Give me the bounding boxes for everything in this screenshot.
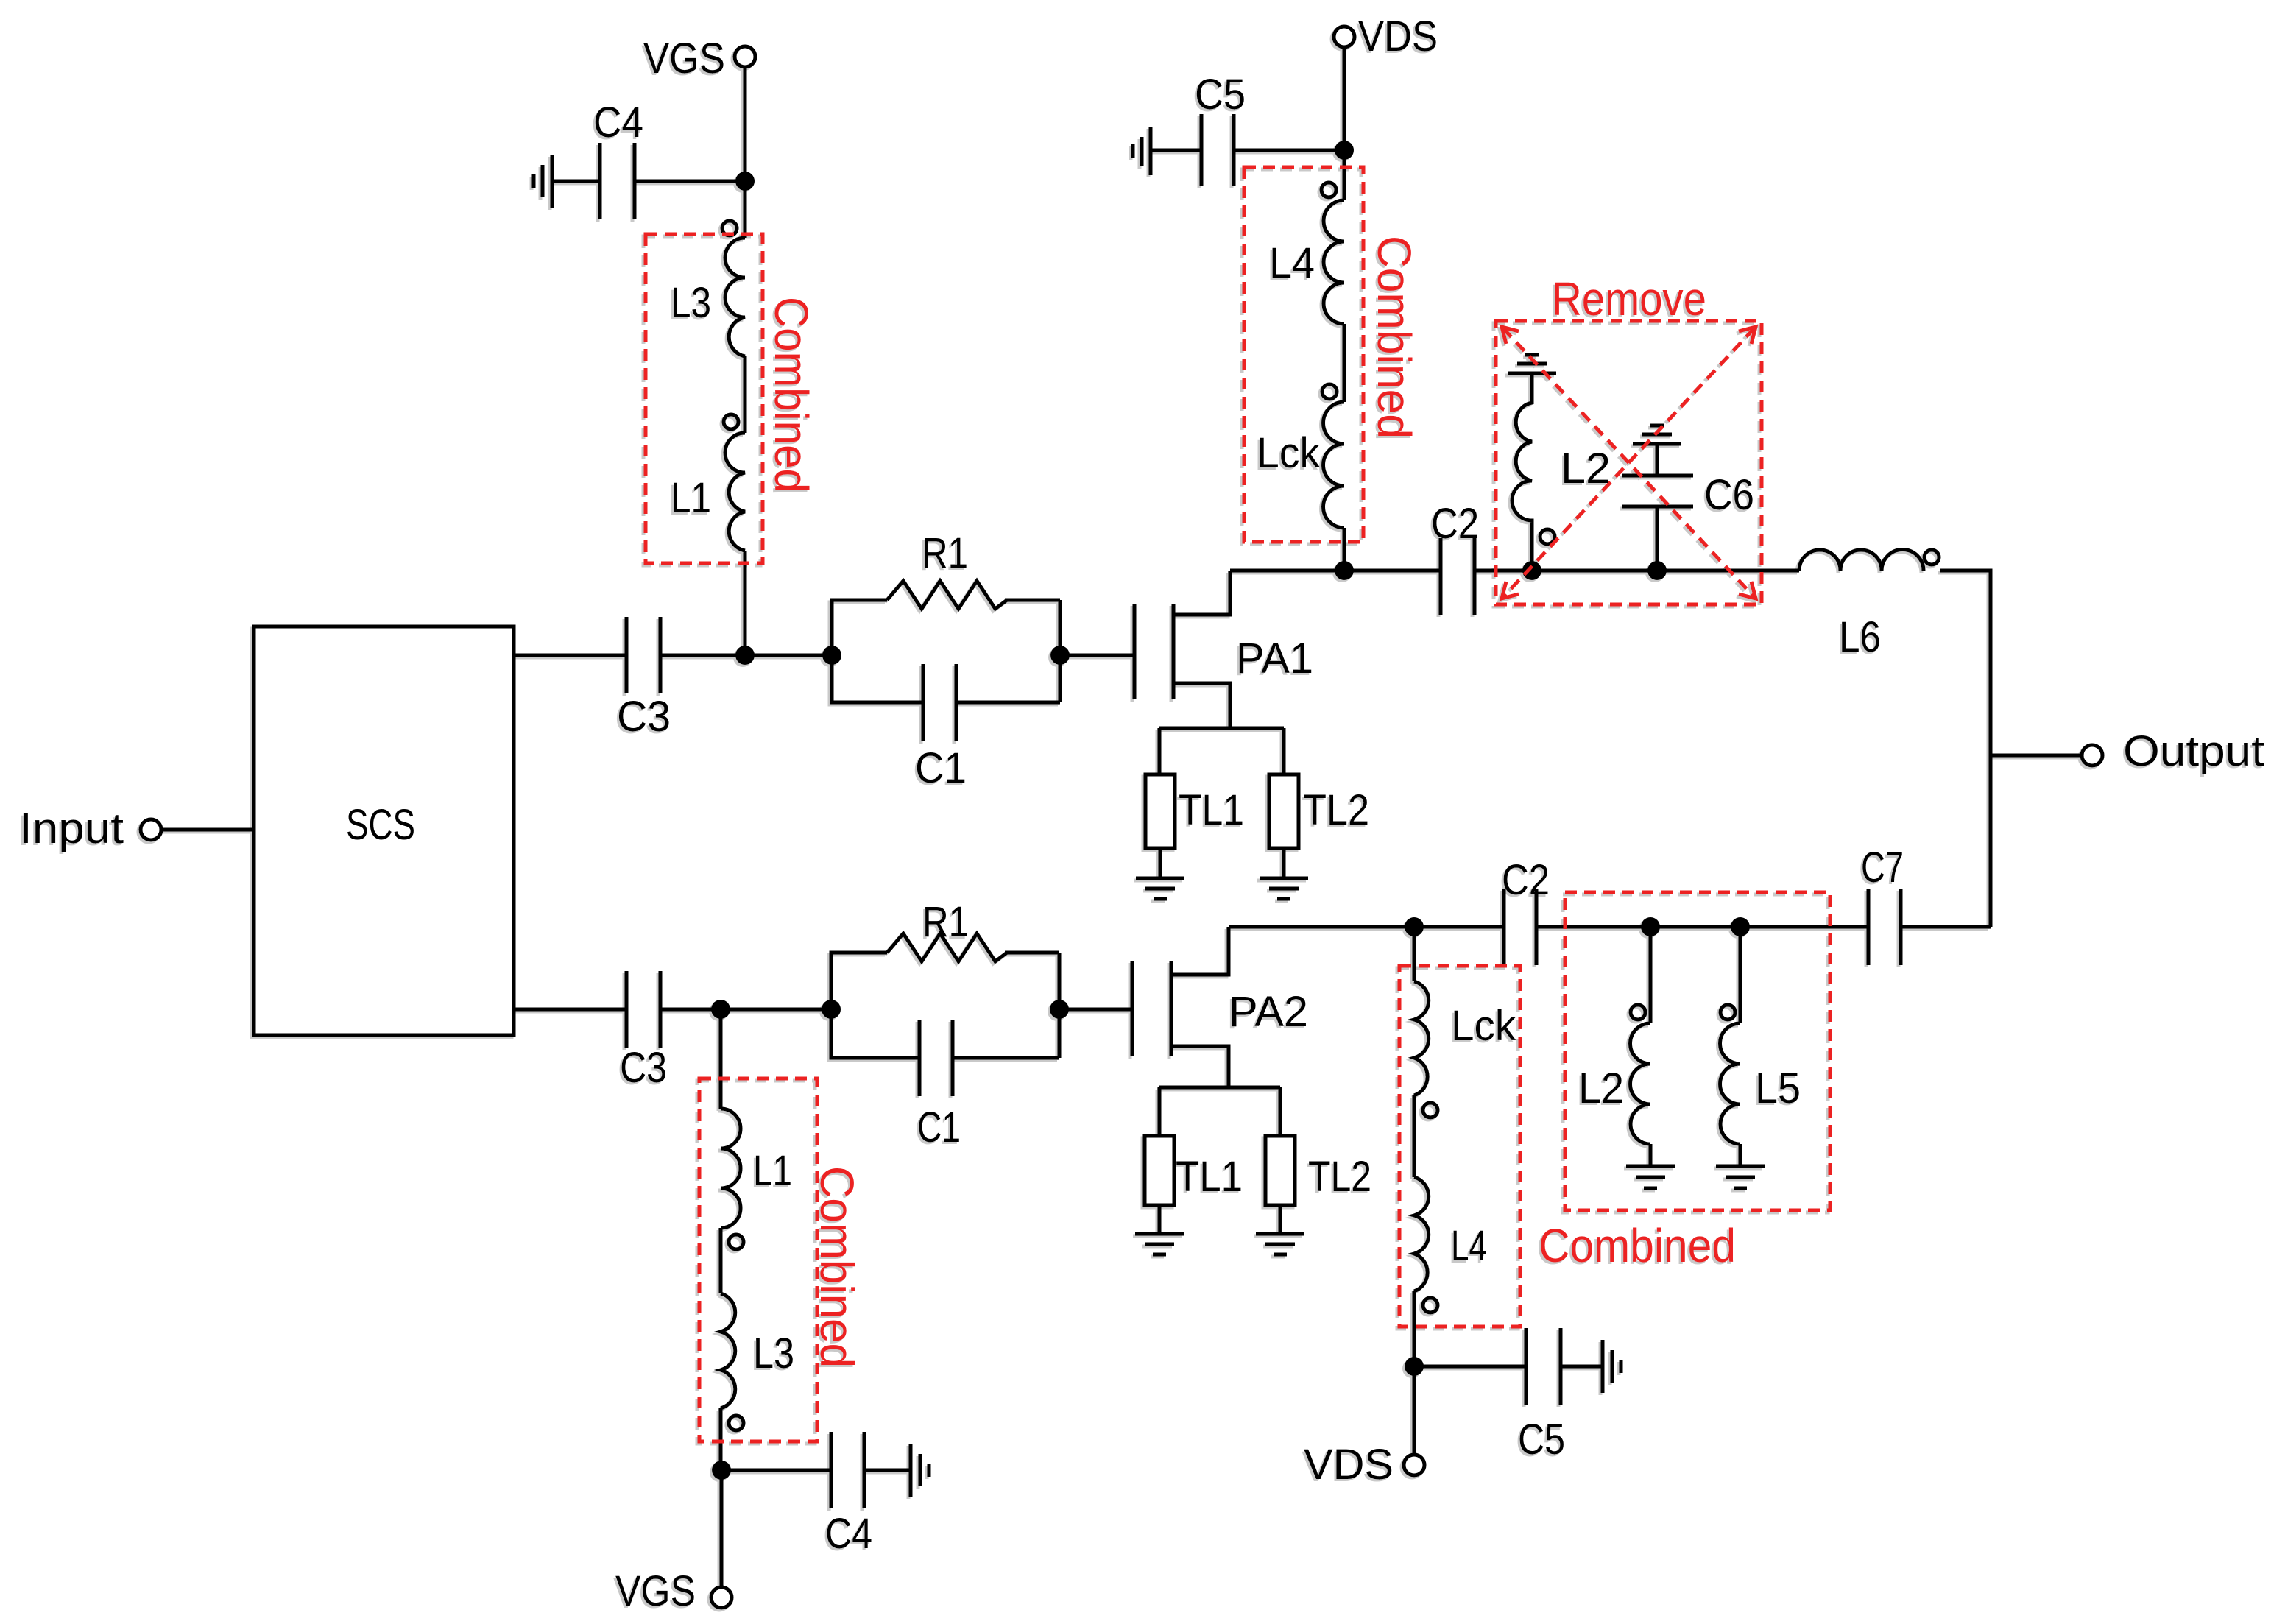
- wire L2 to ground (bottom): [1649, 1144, 1653, 1166]
- wire C3 to node A1: [660, 654, 744, 657]
- node G1 (VGS/C4 junction top): [735, 172, 755, 191]
- terminal VDS (top): [1334, 27, 1355, 47]
- svg-text:R1: R1: [922, 529, 968, 577]
- combined box L4/Lck (top middle): [1244, 167, 1363, 542]
- wire input to SCS: [161, 828, 254, 832]
- inductor L4 (top): [1321, 183, 1336, 197]
- ground C4 (bottom, lying right): [911, 1444, 929, 1497]
- svg-text:TL1: TL1: [1179, 786, 1244, 834]
- inductor L3 (top): [722, 221, 737, 236]
- svg-text:C5: C5: [1518, 1416, 1565, 1464]
- wire C4 to node G1: [635, 180, 745, 183]
- inductor Lck (top): [1322, 384, 1337, 399]
- node H2 (VDS/C5 junction bottom): [1405, 1357, 1424, 1376]
- inductor L2 (bottom): [1631, 1005, 1645, 1020]
- svg-text:Lck: Lck: [1257, 429, 1321, 477]
- wire RC loop frame (top branch): [832, 600, 1060, 702]
- svg-text:TL2: TL2: [1303, 786, 1369, 834]
- svg-text:C3: C3: [620, 1044, 667, 1092]
- resistor R1 (top branch): [887, 581, 1007, 609]
- node E2 (L2 junction bottom): [1641, 917, 1660, 936]
- node G2 (VGS/C4 junction bottom): [712, 1461, 731, 1480]
- node B1 (RC loop left, top): [822, 646, 841, 665]
- svg-text:PA1: PA1: [1236, 635, 1313, 682]
- wire C7 to output corner: [1901, 925, 1991, 929]
- ground TL2 (bottom): [1256, 1234, 1304, 1254]
- capacitor C2 (bottom): [1502, 889, 1506, 965]
- remove X diagonal 1: [1503, 328, 1754, 597]
- svg-text:L1: L1: [671, 474, 711, 522]
- svg-text:VDS: VDS: [1358, 13, 1438, 60]
- wire L5 to ground: [1739, 1144, 1742, 1166]
- capacitor C4 (bottom): [830, 1432, 833, 1508]
- svg-text:VGS: VGS: [643, 35, 725, 82]
- wire VGS to node G1: [744, 67, 747, 181]
- svg-text:L6: L6: [1839, 613, 1881, 661]
- remove X arrowheads: [1502, 327, 1756, 599]
- svg-text:TL2: TL2: [1308, 1153, 1371, 1201]
- svg-text:PA2: PA2: [1229, 988, 1308, 1036]
- svg-text:L4: L4: [1269, 239, 1315, 287]
- ground C6 (pointing up): [1633, 426, 1681, 444]
- capacitor C1 (bottom branch): [918, 1020, 922, 1096]
- terminal Output: [2082, 745, 2102, 766]
- wire C2 to L6: [1475, 569, 1799, 573]
- terminal VGS (top): [735, 46, 755, 67]
- node C1n (RC loop right, top): [1050, 646, 1070, 665]
- block SCS: [254, 626, 514, 1035]
- inductor L4 (bottom): [1414, 1177, 1429, 1291]
- ground L2 (bottom): [1626, 1166, 1675, 1188]
- svg-text:L3: L3: [753, 1330, 794, 1377]
- wire node D2 down to Lck: [1413, 927, 1416, 981]
- svg-text:Lck: Lck: [1451, 1002, 1516, 1050]
- svg-text:VDS: VDS: [1304, 1441, 1394, 1489]
- combined box L1/L3 (bottom left): [699, 1078, 817, 1441]
- node C2n (RC loop right, bottom): [1050, 1000, 1069, 1019]
- wire TL1 to ground (top): [1159, 848, 1162, 878]
- node D1 (drain bias junction top): [1335, 561, 1354, 580]
- capacitor C3 (top branch): [625, 617, 629, 693]
- svg-text:C7: C7: [1861, 844, 1904, 892]
- ground C5 (top, lying left): [1133, 127, 1151, 175]
- wire SCS to C3 bottom: [514, 1008, 626, 1012]
- wire L4 to node H2: [1413, 1291, 1416, 1366]
- wire output stub: [1991, 754, 2082, 758]
- combined box Lck/L4 (bottom middle): [1399, 966, 1520, 1327]
- node B2 (RC loop left, bottom): [822, 1000, 841, 1019]
- wire node G2 to C4 (bottom): [721, 1469, 831, 1472]
- node E1 (L2 junction top): [1522, 561, 1541, 580]
- ground L2 (top, pointing up): [1508, 355, 1556, 373]
- capacitor C5 (top): [1200, 114, 1204, 186]
- inductor L2 (top, to remove): [1540, 529, 1555, 544]
- node F1 (C6 junction top): [1647, 561, 1667, 580]
- ground TL1 (top): [1136, 878, 1184, 899]
- wire ground to C4 (top): [552, 180, 600, 183]
- svg-text:Combined: Combined: [810, 1166, 864, 1368]
- capacitor C4 (top): [598, 143, 602, 219]
- capacitor C3 (bottom branch): [625, 971, 629, 1048]
- wire L6 to output corner: [1940, 571, 1991, 927]
- wire node C2n to PA2 gate: [1059, 1008, 1132, 1012]
- inductor L1 (bottom): [721, 1109, 741, 1228]
- transmission line TL1 (top): [1145, 774, 1175, 848]
- ground C4 (top, lying left): [534, 155, 552, 208]
- node A1 (top gate bias junction): [735, 646, 755, 665]
- svg-text:TL1: TL1: [1176, 1153, 1243, 1201]
- wire L1 to node A1: [744, 551, 747, 655]
- svg-text:L1: L1: [753, 1147, 792, 1195]
- transistor PA1: [1134, 571, 1284, 774]
- svg-text:L2: L2: [1561, 445, 1611, 493]
- svg-text:Combined: Combined: [1368, 236, 1421, 439]
- svg-text:Combined: Combined: [765, 297, 818, 493]
- svg-text:Input: Input: [19, 805, 124, 852]
- capacitor C6 (to remove): [1622, 444, 1693, 571]
- wire TL2 to ground (bottom): [1279, 1205, 1282, 1234]
- svg-text:C2: C2: [1431, 500, 1479, 548]
- svg-text:VGS: VGS: [615, 1567, 696, 1615]
- svg-text:C4: C4: [825, 1510, 872, 1558]
- svg-text:Remove: Remove: [1552, 272, 1706, 325]
- wire PA2 drain to C2: [1229, 925, 1504, 929]
- wire C3 to node A2: [660, 1008, 721, 1012]
- combined box L2/L5 (bottom right): [1565, 892, 1830, 1210]
- node D2 (drain bias junction bottom): [1405, 917, 1424, 936]
- svg-text:Combined: Combined: [1539, 1219, 1736, 1272]
- inductor Lck (bottom): [1414, 981, 1429, 1095]
- inductor L1 (top): [724, 414, 738, 429]
- node A2 (bottom gate bias junction): [711, 1000, 730, 1019]
- transmission line TL1 (bottom): [1145, 1136, 1174, 1205]
- inductor L5: [1720, 1005, 1735, 1020]
- wire node H1 down to L4: [1343, 150, 1346, 200]
- svg-text:Output: Output: [2123, 727, 2264, 775]
- wire C5 to ground (bottom): [1561, 1365, 1603, 1369]
- wire TL2 to ground (top): [1282, 848, 1286, 878]
- svg-text:C1: C1: [915, 744, 967, 792]
- transistor PA2: [1132, 927, 1280, 1136]
- svg-text:L4: L4: [1451, 1222, 1487, 1270]
- svg-text:C4: C4: [593, 99, 643, 146]
- wire node A2 to node B2: [721, 1008, 831, 1012]
- wire Lck to node D1: [1343, 528, 1346, 571]
- svg-text:C2: C2: [1502, 856, 1550, 904]
- resistor R1 (bottom branch): [887, 933, 1007, 961]
- combined box L3/L1 (top left): [646, 234, 763, 563]
- svg-text:C6: C6: [1704, 471, 1754, 519]
- wire RC loop frame (bottom branch): [831, 953, 1059, 1058]
- wire C5 to node H1: [1234, 149, 1344, 152]
- terminal Input: [141, 819, 161, 840]
- node F2 (L5 junction bottom): [1731, 917, 1750, 936]
- wire node G1 down to L3: [744, 181, 747, 238]
- wire VDS to node H1: [1343, 47, 1346, 150]
- wire ground to C5 (top): [1151, 149, 1201, 152]
- inductor L3 (bottom): [721, 1293, 735, 1408]
- wire Lck to L4 (bottom): [1413, 1095, 1416, 1177]
- wire node C1n to PA1 gate: [1060, 654, 1134, 657]
- wire SCS to C3 top: [514, 654, 626, 657]
- wire C4 to ground (bottom): [864, 1469, 911, 1472]
- wire C2 to C7 (bottom): [1536, 925, 1868, 929]
- capacitor C2 (top): [1439, 538, 1443, 615]
- svg-text:L2: L2: [1578, 1065, 1624, 1112]
- capacitor C1 (top branch): [922, 664, 925, 741]
- wire L4 to Lck (top): [1343, 324, 1346, 402]
- ground TL2 (top): [1260, 878, 1308, 899]
- wire node A1 to node B1: [744, 654, 832, 657]
- capacitor C5 (bottom): [1525, 1328, 1528, 1405]
- wire node H2 to C5 (bottom): [1414, 1365, 1526, 1369]
- wire L3 to L1 (top): [744, 356, 747, 433]
- svg-text:C5: C5: [1195, 71, 1246, 119]
- wire PA1 drain to C2: [1230, 569, 1441, 573]
- wire node F2 down to L5: [1739, 927, 1742, 1023]
- transmission line TL2 (bottom): [1265, 1136, 1295, 1205]
- remove box L2/C6: [1496, 321, 1762, 604]
- wire node G2 to VGS (bottom): [720, 1470, 724, 1587]
- terminal VDS (bottom): [1404, 1455, 1424, 1475]
- transmission line TL2 (top): [1269, 774, 1299, 848]
- ground L5: [1716, 1166, 1765, 1188]
- svg-text:C1: C1: [917, 1104, 961, 1151]
- node H1 (VDS/C5 junction top): [1335, 141, 1354, 160]
- capacitor C7: [1867, 889, 1871, 965]
- wire node E2 down to L2 (bottom): [1649, 927, 1653, 1023]
- wire node A2 down to L1: [719, 1009, 723, 1109]
- svg-text:C3: C3: [617, 693, 671, 741]
- ground C5 (bottom, lying right): [1603, 1340, 1621, 1393]
- svg-text:L5: L5: [1755, 1065, 1801, 1112]
- inductor L6: [1799, 550, 1924, 571]
- wire L1 to L3 (bottom): [719, 1228, 723, 1293]
- wire L3 to node G2: [719, 1408, 723, 1470]
- svg-text:R1: R1: [922, 898, 969, 946]
- ground TL1 (bottom): [1135, 1234, 1184, 1254]
- svg-text:L3: L3: [671, 279, 711, 327]
- svg-text:SCS: SCS: [346, 801, 415, 849]
- wire node H2 to VDS (bottom): [1413, 1366, 1416, 1455]
- terminal VGS (bottom): [711, 1587, 732, 1608]
- remove X diagonal 2: [1503, 328, 1754, 597]
- wire TL1 to ground (bottom): [1158, 1205, 1162, 1234]
